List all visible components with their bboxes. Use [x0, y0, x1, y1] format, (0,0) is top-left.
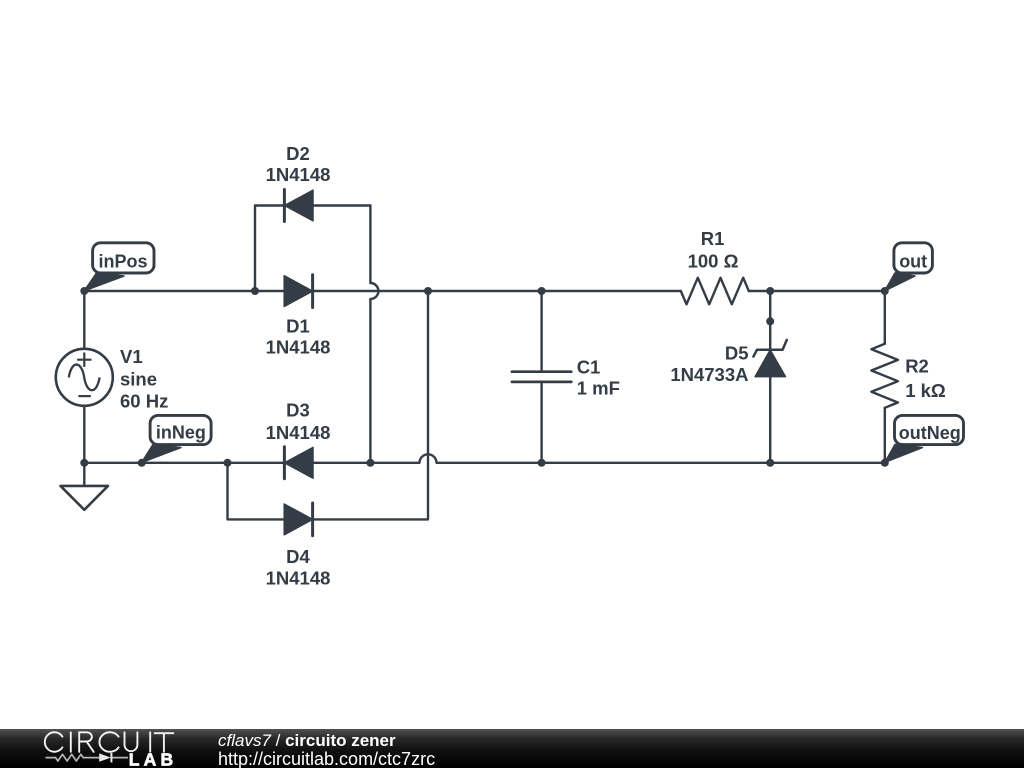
voltage source V1: [56, 349, 113, 406]
svg-text:inNeg: inNeg: [156, 423, 206, 443]
wire V1 top lead: [83, 291, 85, 349]
label D1 value: [266, 316, 331, 358]
wire C1 top lead: [540, 291, 542, 371]
diode D3 1N4148: [284, 447, 313, 479]
ground: [61, 486, 109, 510]
svg-text:D2: D2: [286, 143, 310, 164]
label C1 value: [577, 357, 620, 399]
svg-text:sine: sine: [120, 369, 157, 390]
junction node inNeg: [138, 459, 146, 467]
wire bottom rail with hop over D4 branch: [84, 454, 885, 463]
svg-text:http://circuitlab.com/ctc7zrc: http://circuitlab.com/ctc7zrc: [218, 749, 435, 768]
node inPos label: [84, 243, 154, 291]
svg-text:1N4733A: 1N4733A: [670, 364, 748, 385]
label R2 value: [905, 355, 946, 401]
junction node D5 anode stub: [766, 317, 774, 325]
label D3 value: [266, 400, 331, 443]
svg-text:D5: D5: [725, 343, 749, 364]
wire V1 bottom lead: [83, 406, 85, 463]
junction node D4 left: [224, 459, 232, 467]
diode D2 1N4148: [284, 190, 313, 222]
junction node out: [881, 287, 889, 295]
junction node inPos: [80, 287, 88, 295]
wire C1 bottom lead: [540, 383, 542, 463]
svg-text:R2: R2: [905, 355, 929, 376]
diode D1 1N4148: [284, 275, 312, 308]
svg-text:1N4148: 1N4148: [266, 164, 331, 185]
svg-text:inPos: inPos: [99, 252, 148, 272]
label V1 value: [120, 346, 168, 412]
junction node D2 bottom: [366, 459, 374, 467]
label D2 value: [266, 143, 331, 185]
junction node D5 bottom: [766, 459, 774, 467]
svg-text:D3: D3: [286, 400, 310, 421]
svg-text:1N4148: 1N4148: [266, 337, 331, 358]
svg-text:D1: D1: [286, 316, 310, 337]
svg-text:D4: D4: [286, 546, 310, 567]
svg-text:cflavs7 / circuito zener: cflavs7 / circuito zener: [218, 731, 396, 750]
junction node ground: [80, 459, 88, 467]
junction node D1 cathode rail: [424, 287, 432, 295]
svg-text:R1: R1: [701, 228, 725, 249]
resistor R2: [871, 344, 898, 408]
label D4 value: [266, 546, 331, 589]
svg-text:outNeg: outNeg: [899, 423, 961, 443]
svg-text:60 Hz: 60 Hz: [120, 390, 168, 411]
wire R2 top lead: [884, 291, 886, 344]
wire ground lead: [83, 463, 85, 486]
wire D2 branch top: [255, 206, 370, 292]
CircuitLab logo CIRCUIT: [45, 732, 173, 752]
label D5 value: [670, 343, 748, 386]
wire R2 bottom lead: [884, 408, 886, 463]
svg-text:1N4148: 1N4148: [266, 422, 331, 443]
svg-text:C1: C1: [577, 357, 601, 378]
junction node R1 right: [766, 287, 774, 295]
svg-text:1N4148: 1N4148: [266, 568, 331, 589]
node inNeg label: [142, 415, 211, 462]
junction node C1 top: [538, 287, 546, 295]
svg-text:V1: V1: [120, 346, 143, 367]
wire D5 top lead: [769, 291, 771, 349]
label R1 value: [688, 228, 739, 272]
capacitor C1: [512, 372, 571, 382]
svg-text:LAB: LAB: [129, 750, 178, 768]
wire D2 right drop with hop over top rail: [370, 206, 378, 463]
junction node C1 bottom: [538, 459, 546, 467]
node outNeg label: [885, 415, 964, 462]
svg-text:out: out: [899, 252, 927, 272]
diode D4 1N4148: [284, 503, 312, 536]
svg-text:100 Ω: 100 Ω: [688, 251, 739, 272]
wire D5 bottom lead: [769, 377, 771, 463]
svg-text:1 kΩ: 1 kΩ: [905, 380, 946, 401]
CircuitLab logo resistor-diode glyph: [46, 754, 129, 761]
junction node outNeg: [881, 459, 889, 467]
junction node D2 left: [251, 287, 259, 295]
node out label: [885, 243, 933, 291]
footer bar: [0, 729, 1024, 768]
zener diode D5 1N4733A: [753, 340, 786, 377]
svg-text:1 mF: 1 mF: [577, 378, 620, 399]
wire top rail inPos/out: [84, 290, 885, 292]
wire D4 branch: [228, 291, 429, 519]
resistor R1: [681, 278, 749, 305]
